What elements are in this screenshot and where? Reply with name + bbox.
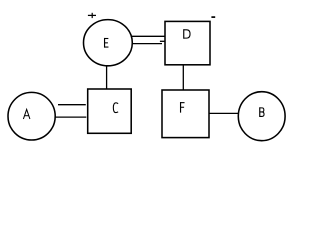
label C: [113, 103, 118, 113]
minus sign (-) near D: [211, 16, 215, 18]
wire F-B horizontal: [209, 112, 240, 114]
label A: [23, 109, 30, 119]
label F: [180, 102, 184, 113]
wire A-C upper: [58, 104, 86, 106]
label E: [104, 38, 108, 48]
wire E-D lower segment a: [132, 43, 163, 45]
node F (square): [162, 90, 209, 138]
wire E-D lower segment b: [160, 40, 166, 42]
node D (square): [165, 21, 210, 64]
node E (circle): [84, 20, 133, 66]
wire E-D upper: [131, 35, 166, 37]
wire A-C lower: [55, 116, 86, 118]
wire E-C vertical: [106, 64, 108, 90]
label D: [184, 29, 190, 39]
node C (square): [88, 89, 132, 133]
wire D-F vertical: [182, 65, 184, 91]
plus sign (+) near E: [88, 14, 96, 16]
node A (circle): [8, 92, 55, 140]
label B: [260, 107, 264, 117]
node B (circle): [238, 92, 285, 141]
